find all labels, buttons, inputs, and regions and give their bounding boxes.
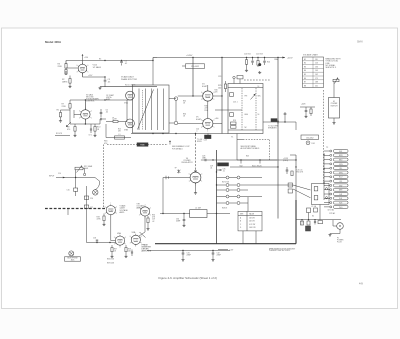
svg-text:E3: E3 xyxy=(304,66,306,68)
capacitor C28 xyxy=(204,159,206,162)
svg-text:100: 100 xyxy=(218,87,221,89)
svg-text:(REG): (REG) xyxy=(283,160,288,162)
wire V7B diag xyxy=(140,232,146,238)
T1 winding b dashed xyxy=(255,88,257,130)
resistor R6 left xyxy=(59,113,61,117)
wire V2 low row xyxy=(55,135,70,137)
wire blob drop xyxy=(207,134,209,136)
tube V2 xyxy=(81,110,90,119)
node bus133 a xyxy=(152,133,153,134)
transformer T1 box xyxy=(228,84,263,134)
svg-text:L1: L1 xyxy=(119,134,121,136)
T1 arrow diag xyxy=(251,94,256,100)
wire L1 row xyxy=(106,137,131,139)
svg-text:136: 136 xyxy=(315,66,318,68)
svg-text:R44 4.7K: R44 4.7K xyxy=(252,166,260,168)
wire V4 V5 link xyxy=(207,101,209,118)
wire shield stub xyxy=(67,209,69,216)
wire 408 row xyxy=(300,106,315,108)
svg-text:R50 47K: R50 47K xyxy=(297,172,304,174)
svg-text:S2: S2 xyxy=(312,216,314,218)
capacitor C15 xyxy=(74,188,78,191)
svg-text:E5: E5 xyxy=(304,74,306,76)
resistor R51a xyxy=(288,183,292,187)
svg-text:R37: R37 xyxy=(114,249,117,251)
wire mid col heavy xyxy=(216,150,218,244)
wire V3 right vert xyxy=(126,100,128,122)
wire grid line xyxy=(100,86,157,88)
ground R10 xyxy=(94,134,96,135)
wire R3 to node xyxy=(65,71,67,75)
ground R2 xyxy=(69,85,71,86)
resistor R7 xyxy=(69,100,71,104)
node 222 xyxy=(221,57,222,58)
svg-text:PLUG: PLUG xyxy=(337,242,342,244)
wire filter row xyxy=(147,250,230,252)
ground R22 xyxy=(246,69,248,70)
wire choke row xyxy=(160,213,190,215)
svg-text:188: 188 xyxy=(315,82,318,84)
node AC a xyxy=(301,219,302,220)
ground grid line xyxy=(99,87,101,88)
tube V7B xyxy=(140,207,149,216)
wire dashed v196 xyxy=(195,134,197,173)
svg-text:MICROPHONE: MICROPHONE xyxy=(67,258,77,260)
tube V1 xyxy=(78,64,87,73)
wire jack curve xyxy=(95,181,99,190)
svg-text:40MF: 40MF xyxy=(176,221,180,223)
svg-text:110: 110 xyxy=(315,59,318,61)
resistor R8 xyxy=(69,112,71,124)
svg-text:C14: C14 xyxy=(58,173,61,175)
ground R33 xyxy=(103,223,105,224)
T1 inner res a xyxy=(230,93,234,97)
node cathode xyxy=(104,76,105,77)
pilot label box xyxy=(301,135,319,139)
svg-text:6600: 6600 xyxy=(245,114,249,116)
T1 inner res b xyxy=(230,113,234,117)
ground R38 xyxy=(125,255,127,256)
tube V8A xyxy=(115,236,124,245)
svg-text:T2: T2 xyxy=(326,147,328,149)
svg-text:150-4452: 150-4452 xyxy=(306,137,314,139)
svg-text:.1: .1 xyxy=(196,131,197,133)
potentiometer R17 xyxy=(75,167,83,170)
svg-text:C21 R23: C21 R23 xyxy=(256,53,263,55)
svg-text:470: 470 xyxy=(215,92,218,94)
wire choke right xyxy=(207,213,230,215)
jack J1 xyxy=(93,190,98,195)
svg-text:C9 .1: C9 .1 xyxy=(89,135,93,137)
resistor R22 xyxy=(245,60,247,65)
svg-text:DS1: DS1 xyxy=(312,143,315,145)
svg-text:Figure 4-6. Amplifier Schemat: Figure 4-6. Amplifier Schematic (Sheet 1… xyxy=(159,276,218,280)
wire pin link xyxy=(175,100,177,121)
T1 crossing line xyxy=(215,109,242,111)
wire bus jog xyxy=(152,58,154,61)
winding lines T-net xyxy=(138,89,140,131)
pins V5 xyxy=(211,125,214,128)
node filter a xyxy=(182,250,183,251)
resistor R23 xyxy=(257,61,259,66)
wire sw row ext b xyxy=(248,184,293,186)
wire v8 row xyxy=(87,242,116,244)
node C21 top xyxy=(264,57,265,58)
wire right bus 278 low xyxy=(277,122,279,219)
svg-text:C8: C8 xyxy=(112,118,114,120)
node spk xyxy=(284,121,285,122)
node 193 xyxy=(192,57,193,58)
svg-text:CURRENTS. SEE SECTION IV.: CURRENTS. SEE SECTION IV. xyxy=(269,250,291,252)
choke L2 box xyxy=(190,210,207,218)
wire R6 row xyxy=(61,109,71,111)
capacitor C33 xyxy=(131,251,133,253)
svg-text:B: B xyxy=(240,221,241,223)
capacitor C9 xyxy=(90,128,92,130)
svg-text:R5: R5 xyxy=(99,59,101,61)
resistor R50 xyxy=(291,171,293,176)
wire V5 right xyxy=(213,123,222,125)
svg-text:20MF: 20MF xyxy=(187,255,191,257)
capacitor C16 xyxy=(84,196,88,199)
capacitor C1 xyxy=(121,60,123,63)
tube V4 xyxy=(203,91,213,101)
wire right bus 278 xyxy=(277,58,279,123)
svg-text:Model 400A: Model 400A xyxy=(45,40,62,44)
wire box out top xyxy=(169,98,176,100)
capacitor C32 xyxy=(212,252,215,254)
capacitor C30 xyxy=(183,219,186,221)
svg-text:C20 R22: C20 R22 xyxy=(244,53,251,55)
switch contact rows xyxy=(217,177,226,179)
label mic box xyxy=(65,257,81,261)
svg-text:SWITCH: SWITCH xyxy=(331,105,339,107)
svg-text:16: 16 xyxy=(258,114,260,116)
wire input row xyxy=(65,177,95,179)
svg-text:R38: R38 xyxy=(128,249,131,251)
svg-text:R42: R42 xyxy=(239,166,242,168)
svg-text:L2 10H: L2 10H xyxy=(195,207,201,209)
wire V2 grid stub xyxy=(74,113,81,115)
tube V8B xyxy=(131,235,140,244)
svg-text:.02: .02 xyxy=(152,221,154,223)
pin circle top xyxy=(174,97,178,101)
svg-text:C26: C26 xyxy=(258,166,261,168)
svg-text:R6: R6 xyxy=(57,110,59,112)
wire table tie xyxy=(247,197,249,211)
node R22 top xyxy=(246,57,247,58)
wire notebox tie xyxy=(236,134,238,140)
resistor R2 grid xyxy=(69,79,71,84)
capacitor C21 xyxy=(264,58,266,61)
svg-text:SEE NOTE 3.: SEE NOTE 3. xyxy=(326,67,337,69)
wire table feet xyxy=(242,231,244,244)
capacitor C18 xyxy=(96,239,98,241)
svg-text:ADJUSTMENT DETAILS: ADJUSTMENT DETAILS xyxy=(241,147,261,150)
wire V7B drop xyxy=(144,216,146,232)
wire B+ bus left xyxy=(66,60,153,62)
ground R37 xyxy=(111,255,113,256)
node row167 xyxy=(277,166,278,167)
plug P1 xyxy=(337,223,344,230)
svg-text:20MF: 20MF xyxy=(217,255,221,257)
svg-text:.05: .05 xyxy=(112,120,114,122)
wire x222 long xyxy=(221,92,223,134)
table bias values xyxy=(238,211,262,231)
pin circle bottom xyxy=(174,121,178,125)
dark fuse blob xyxy=(306,226,311,231)
svg-text:+415V: +415V xyxy=(287,57,293,59)
svg-text:V3B: V3B xyxy=(124,130,128,132)
svg-text:150-4452: 150-4452 xyxy=(191,66,199,68)
svg-text:149: 149 xyxy=(315,70,318,72)
resistor R35 xyxy=(147,218,149,223)
primary pin a xyxy=(325,188,327,190)
speaker pad dark xyxy=(271,119,277,122)
wire V6 left xyxy=(163,177,190,179)
svg-text:+408: +408 xyxy=(301,104,305,106)
tube V3A xyxy=(126,91,135,100)
wire V5 grid xyxy=(178,123,203,125)
resistor RA xyxy=(301,221,304,225)
svg-text:R28: R28 xyxy=(233,120,236,122)
inductor L1 xyxy=(115,136,125,139)
wire sw row ext c xyxy=(248,196,262,198)
svg-text:.01: .01 xyxy=(223,171,225,173)
junction blob xyxy=(205,135,212,139)
svg-text:100K 1W: 100K 1W xyxy=(249,227,256,229)
wire feedback dashed xyxy=(107,144,168,146)
node x222 v4 xyxy=(221,95,222,96)
svg-text:.05: .05 xyxy=(108,81,111,83)
fuse F1 xyxy=(307,208,311,213)
wire 6.3 stub xyxy=(218,249,228,251)
wire V6 right row xyxy=(206,159,296,161)
svg-text:R36 470K: R36 470K xyxy=(107,259,115,261)
svg-text:V3A: V3A xyxy=(124,102,128,105)
node 296 a xyxy=(295,159,296,160)
svg-text:10K 2W: 10K 2W xyxy=(249,218,255,220)
svg-text:C15: C15 xyxy=(67,190,70,192)
svg-text:R24: R24 xyxy=(267,62,270,64)
wire V4 grid xyxy=(178,95,203,97)
terminal strip T2 xyxy=(334,150,349,153)
svg-text:C16: C16 xyxy=(90,198,93,200)
primary res b xyxy=(314,196,318,200)
wire drop x106 xyxy=(105,124,107,138)
svg-text:E2: E2 xyxy=(304,63,306,65)
node V2 cath xyxy=(85,123,86,124)
svg-text:4-9: 4-9 xyxy=(359,282,363,286)
wire V1 plate drop xyxy=(65,61,67,65)
svg-text:1/2 6AU6: 1/2 6AU6 xyxy=(93,66,102,69)
wire V1 top arrow xyxy=(82,56,84,65)
wire feedback vert dashed xyxy=(103,145,105,209)
ground R8 xyxy=(74,134,76,135)
wire v163 drop xyxy=(162,178,164,214)
capacitor C27 pair xyxy=(305,110,308,112)
wire box out bottom xyxy=(169,122,174,124)
svg-text:C18: C18 xyxy=(93,238,96,240)
V3 box dashed wind xyxy=(142,90,144,130)
wire bus drop x193 xyxy=(192,58,194,97)
wire V2 plate xyxy=(84,100,86,110)
svg-text:SM-II: SM-II xyxy=(357,41,363,44)
svg-text:C23: C23 xyxy=(218,76,221,78)
svg-text:E6: E6 xyxy=(304,78,306,80)
node V2 bus b xyxy=(104,99,105,100)
wire spk out xyxy=(263,121,296,123)
svg-text:R43: R43 xyxy=(246,156,249,158)
wire S1 gnd xyxy=(333,118,335,122)
svg-text:+245V: +245V xyxy=(186,55,193,57)
primary res a xyxy=(314,187,318,191)
wire pot tap xyxy=(75,170,77,188)
ground R35 xyxy=(147,228,149,229)
node V6 top xyxy=(195,170,197,172)
transformer primary box xyxy=(312,184,330,205)
svg-text:+400: +400 xyxy=(215,118,219,120)
ground R6 xyxy=(60,120,62,121)
wire heavy bus xyxy=(155,243,296,245)
label R9 xyxy=(113,121,118,123)
wire strip bus xyxy=(323,153,325,200)
node V4 grid xyxy=(192,95,193,96)
potentiometer R40 xyxy=(333,79,339,81)
wire V2 row xyxy=(70,123,100,125)
svg-text:E7: E7 xyxy=(304,82,306,84)
capacitor C3 xyxy=(104,77,106,80)
bus bottom output xyxy=(131,133,228,135)
node pot tap xyxy=(75,177,76,178)
capacitor C22 xyxy=(284,112,286,113)
switch S2 box xyxy=(318,221,323,224)
svg-text:117V AC: 117V AC xyxy=(328,209,335,212)
svg-text:R15: R15 xyxy=(118,129,121,131)
wire shield dashed xyxy=(45,208,105,210)
wire spk drop xyxy=(295,122,297,130)
svg-text:E1: E1 xyxy=(304,59,306,61)
resistor R37 xyxy=(111,248,113,252)
svg-text:22K 1W: 22K 1W xyxy=(249,221,255,223)
svg-text:V7B: V7B xyxy=(137,204,140,206)
wire diag right xyxy=(293,185,311,190)
dashed row above T1 xyxy=(244,79,270,81)
wire dashed v324 xyxy=(323,90,325,183)
node 296 b xyxy=(295,166,296,167)
svg-text:AMPL.: AMPL. xyxy=(120,211,126,214)
svg-text:220K: 220K xyxy=(58,66,63,68)
node V2 bus a xyxy=(85,99,86,100)
svg-text:470: 470 xyxy=(67,129,70,131)
star note xyxy=(177,170,180,173)
wire V1 cathode xyxy=(82,73,84,77)
pins V8A xyxy=(123,242,126,245)
capacitor C6 xyxy=(99,119,101,124)
capacitor C20 xyxy=(252,58,254,61)
resistor R33 xyxy=(103,216,105,221)
pins V7A xyxy=(114,211,117,214)
wire 4452 tie xyxy=(182,65,186,67)
pins V8B xyxy=(139,241,142,244)
svg-text:C23 .1: C23 .1 xyxy=(233,102,238,104)
wire spkr vert xyxy=(195,134,197,137)
resistor RB xyxy=(307,221,310,225)
box V3 coupling xyxy=(133,85,170,133)
label 150-4452 xyxy=(186,64,205,69)
svg-text:201: 201 xyxy=(315,85,318,87)
wire arrow 278 top xyxy=(277,120,279,122)
jack J2 xyxy=(69,251,74,256)
capacitor C25a xyxy=(220,169,222,171)
pins V4 xyxy=(211,98,214,101)
wire V2 bus xyxy=(70,99,133,101)
wire V2 cathode down xyxy=(84,119,86,124)
wire diag phase xyxy=(138,90,154,130)
wire primary to AC xyxy=(319,205,321,220)
wire row167 xyxy=(230,166,278,168)
wire input arrow xyxy=(56,177,65,179)
svg-text:VOLTAGE CHART: VOLTAGE CHART xyxy=(303,54,319,57)
svg-text:6CA7: 6CA7 xyxy=(202,85,208,88)
svg-text:C24: C24 xyxy=(204,140,207,142)
svg-text:REGULATOR: REGULATOR xyxy=(181,161,193,164)
wire S1 drop xyxy=(333,82,335,98)
svg-text:162: 162 xyxy=(315,74,318,76)
svg-text:175: 175 xyxy=(315,78,318,80)
ground C21 xyxy=(259,71,261,72)
svg-text:.02: .02 xyxy=(125,63,128,65)
svg-text:R60: R60 xyxy=(301,222,304,224)
resistor R38 xyxy=(125,248,127,252)
wire bus drop x222 xyxy=(221,58,223,93)
svg-text:SPKR: SPKR xyxy=(197,141,202,143)
pins V6 xyxy=(199,179,202,182)
svg-text:WHT: WHT xyxy=(339,190,343,192)
wire V7A drop xyxy=(110,215,112,241)
node choke xyxy=(183,213,184,214)
wire V6 bottom xyxy=(195,183,197,192)
resistor R10 xyxy=(94,127,96,132)
resistor R25 xyxy=(224,84,226,89)
node filter b xyxy=(212,250,213,251)
note box xyxy=(243,139,270,141)
capacitor CA xyxy=(314,221,316,223)
wire right bus 296 thick xyxy=(295,200,297,244)
svg-text:10: 10 xyxy=(301,224,303,226)
capacitor C31 xyxy=(182,252,185,254)
node v8 row a xyxy=(96,242,97,243)
T1 winding a dashed xyxy=(241,88,243,130)
svg-text:E4: E4 xyxy=(304,70,306,72)
pilot lamp xyxy=(306,141,310,145)
wire stub 296 155 xyxy=(290,154,296,156)
svg-text:AMPLIFIER: AMPLIFIER xyxy=(142,250,152,253)
capacitor C25 xyxy=(286,169,289,171)
capacitor C7 xyxy=(100,112,103,114)
svg-text:4.7K 2W: 4.7K 2W xyxy=(249,224,256,226)
T1 top small parts xyxy=(233,76,235,78)
table voltage chart xyxy=(303,57,324,88)
T1 inner top line xyxy=(228,87,263,89)
pins V1 xyxy=(85,70,88,73)
blob C21 xyxy=(258,63,261,66)
svg-text:1MEG: 1MEG xyxy=(62,81,68,83)
wire right bus 296 xyxy=(295,155,297,200)
wire plug gnd xyxy=(339,229,341,233)
node R23 top xyxy=(257,57,258,58)
tube V3B xyxy=(126,119,135,128)
